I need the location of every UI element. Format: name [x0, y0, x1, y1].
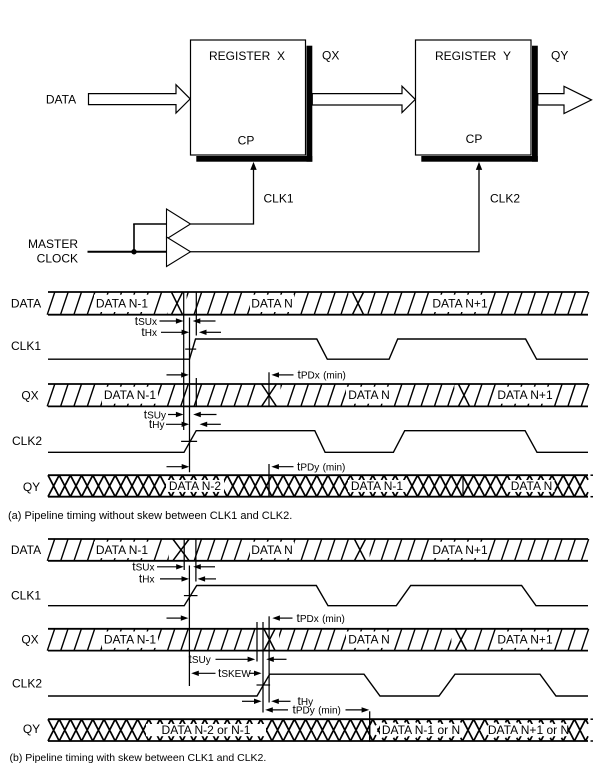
- node vline QX valid (b): [256, 622, 258, 662]
- svg-text:MASTER: MASTER: [28, 237, 78, 251]
- svg-text:DATA N-1 or N: DATA N-1 or N: [382, 723, 460, 737]
- svg-text:DATA N-1: DATA N-1: [96, 296, 149, 310]
- svg-text:DATA N: DATA N: [251, 543, 293, 557]
- node vline QX transition (a): [268, 372, 270, 406]
- wire QX wide arrow: [312, 86, 415, 112]
- svg-text:DATA N: DATA N: [511, 479, 553, 493]
- node vline clk-edge (a): [189, 318, 191, 473]
- wire DATA input wide arrow: [89, 85, 191, 113]
- wire DATA waveform band (b): [47, 539, 588, 561]
- svg-text:DATA N-1: DATA N-1: [96, 543, 149, 557]
- svg-text:DATA N-1: DATA N-1: [104, 633, 157, 647]
- svg-text:QX: QX: [21, 633, 38, 647]
- svg-text:CLK2: CLK2: [12, 434, 42, 448]
- svg-text:tSKEW: tSKEW: [218, 666, 251, 680]
- svg-text:tSUx: tSUx: [132, 560, 154, 574]
- svg-text:REGISTER Y: REGISTER Y: [435, 49, 511, 63]
- svg-text:DATA N: DATA N: [348, 633, 390, 647]
- svg-text:QY: QY: [23, 722, 40, 736]
- svg-text:CP: CP: [466, 132, 483, 146]
- register Y U2: [416, 40, 538, 162]
- buffer B1 (CLK1 driver): [167, 209, 191, 239]
- node vline hold (a): [195, 292, 197, 336]
- wire QY output wide arrow: [538, 86, 592, 113]
- svg-text:DATA N-2: DATA N-2: [169, 479, 222, 493]
- node tPDy annotation (a): [167, 460, 346, 474]
- svg-text:DATA N-1: DATA N-1: [104, 388, 157, 402]
- wire master clock line: [88, 251, 167, 253]
- node vline data-valid (b): [183, 539, 185, 570]
- svg-text:DATA: DATA: [11, 543, 41, 557]
- node tHx annotation (b): [139, 572, 216, 586]
- node tHx annotation (a): [141, 325, 221, 339]
- node vline QX hold (b): [268, 616, 270, 702]
- node vline hold (b): [195, 539, 197, 582]
- svg-text:DATA N-1: DATA N-1: [351, 479, 404, 493]
- svg-text:CP: CP: [238, 134, 255, 148]
- node vline clk1-edge (b): [188, 566, 190, 687]
- svg-text:(b) Pipeline timing with skew: (b) Pipeline timing with skew between CL…: [10, 752, 267, 764]
- node vline data-valid (a): [183, 292, 185, 430]
- svg-text:tPDy (min): tPDy (min): [297, 460, 345, 474]
- node tSUy annotation (b): [189, 652, 287, 666]
- svg-text:tHx: tHx: [141, 325, 157, 339]
- svg-text:DATA N+1: DATA N+1: [497, 633, 553, 647]
- node tPDy annotation (b): [265, 703, 369, 717]
- node tHy annotation (a): [149, 417, 221, 431]
- svg-text:DATA N+1: DATA N+1: [432, 543, 488, 557]
- node vline CLK2 edge (b): [262, 622, 264, 713]
- node tPDx annotation (b): [167, 611, 345, 625]
- svg-text:DATA N-2 or N-1: DATA N-2 or N-1: [162, 723, 251, 737]
- svg-text:tPDy (min): tPDy (min): [293, 703, 341, 717]
- wire junction to upper buffer input: [133, 224, 135, 253]
- svg-text:CLK1: CLK1: [264, 192, 294, 206]
- svg-text:REGISTER X: REGISTER X: [209, 49, 285, 63]
- node tSUy annotation (a): [144, 407, 217, 421]
- svg-text:CLK1: CLK1: [11, 339, 41, 353]
- node tHy annotation (b): [242, 694, 313, 708]
- node junction dot: [131, 249, 136, 254]
- svg-text:QY: QY: [551, 49, 568, 63]
- node tSUx annotation (b): [132, 560, 215, 574]
- wire CLK1 net: [191, 167, 254, 225]
- svg-text:tSUy: tSUy: [189, 652, 211, 666]
- node tSUx annotation (a): [135, 314, 216, 328]
- svg-text:DATA: DATA: [11, 297, 41, 311]
- wire CLK2 net: [191, 167, 480, 252]
- node vline QY transition (a): [268, 464, 270, 498]
- svg-text:DATA N+1: DATA N+1: [432, 296, 488, 310]
- svg-text:DATA N+1: DATA N+1: [497, 388, 553, 402]
- svg-text:CLK2: CLK2: [12, 677, 42, 691]
- register X U1: [191, 40, 313, 162]
- node tSKEW annotation (b): [191, 666, 261, 680]
- node vline hold-2 (a): [195, 378, 197, 406]
- svg-text:DATA N: DATA N: [348, 388, 390, 402]
- buffer B2 (CLK2 driver): [167, 237, 191, 267]
- node vline QY transition (b): [369, 711, 371, 742]
- svg-text:QY: QY: [23, 480, 40, 494]
- svg-text:DATA N+1 or N: DATA N+1 or N: [488, 723, 569, 737]
- svg-text:DATA: DATA: [46, 93, 76, 107]
- svg-text:tHy: tHy: [149, 417, 165, 431]
- svg-text:tHx: tHx: [139, 572, 155, 586]
- node tPDx annotation (a): [167, 368, 346, 382]
- svg-text:tPDx (min): tPDx (min): [298, 368, 346, 382]
- svg-text:QX: QX: [322, 49, 339, 63]
- svg-text:tSUx: tSUx: [135, 314, 157, 328]
- svg-text:(a) Pipeline timing without sk: (a) Pipeline timing without skew between…: [8, 510, 292, 522]
- svg-text:DATA N: DATA N: [251, 296, 293, 310]
- wire DATA waveform band (a): [47, 292, 589, 315]
- svg-text:QX: QX: [21, 389, 38, 403]
- svg-text:CLK2: CLK2: [490, 192, 520, 206]
- svg-text:tPDx (min): tPDx (min): [297, 611, 345, 625]
- svg-text:CLK1: CLK1: [11, 589, 41, 603]
- svg-text:CLOCK: CLOCK: [37, 252, 78, 266]
